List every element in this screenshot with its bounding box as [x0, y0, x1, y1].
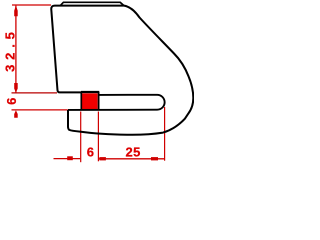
- svg-text:25: 25: [125, 144, 140, 159]
- pin right border: [98, 92, 100, 111]
- arrow blob 25 right: [151, 157, 158, 160]
- arrow up (6 bottom, outside): [14, 110, 18, 118]
- slot top edge over pin: [81, 91, 99, 93]
- extension line slot end: [164, 107, 166, 161]
- pin left border: [80, 92, 82, 110]
- dimension 32.5 vertical dimension line: [15, 6, 17, 93]
- arrow down (32.5 bottom / 6 top): [14, 83, 18, 93]
- svg-text:32.5: 32.5: [2, 27, 17, 72]
- bottom 6 dim: left tail line: [54, 158, 81, 160]
- bottom 6 dim: arrow blob pointing right: [67, 156, 73, 160]
- extension line at slot top (y=93): [12, 92, 58, 94]
- top lip / cover plate: [60, 2, 124, 5]
- arrow up (32.5 top): [14, 5, 18, 16]
- extension line at slot bottom (y=110): [12, 109, 68, 111]
- locking pin (red fill): [82, 93, 98, 109]
- extension line pin right: [97, 112, 99, 162]
- lock body outline: [51, 6, 193, 135]
- extension line pin left: [80, 112, 82, 163]
- dim line 25: [99, 158, 165, 160]
- svg-text:6: 6: [4, 98, 19, 105]
- arrow blob 25 left: [99, 157, 106, 160]
- dimension 32.5 top extension line: [12, 4, 51, 6]
- slot right portion and rounded end and bottom edge: [68, 95, 165, 110]
- svg-text:6: 6: [87, 144, 94, 159]
